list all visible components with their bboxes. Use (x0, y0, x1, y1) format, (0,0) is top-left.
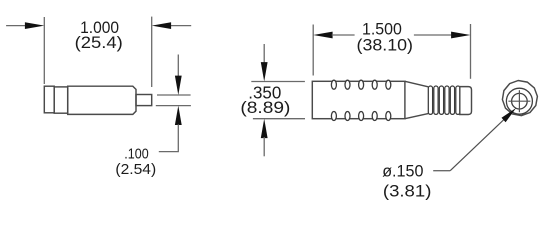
dimension .350 bottom dim line (253, 118, 305, 120)
svg-text:.100: .100 (124, 147, 148, 163)
dimension 1.500 line segment left (332, 34, 355, 36)
dimension 1.500 line segment right (414, 34, 452, 36)
svg-text:(2.54): (2.54) (115, 162, 156, 178)
svg-text:(38.10): (38.10) (357, 35, 414, 54)
diameter leader arrowhead (502, 108, 517, 122)
spring rib 1 (428, 86, 432, 114)
plug tip (136, 95, 152, 106)
dimension 1.000 dim line right with arrow (171, 25, 192, 27)
dimension .350 bottom stub (263, 137, 265, 156)
dimension .100 leader horizontal (159, 151, 179, 153)
dimension 1.000 extension line right (151, 17, 153, 87)
jack grip slot bottom 4 (372, 112, 377, 121)
diameter leader horizontal (433, 170, 450, 172)
jack body (312, 81, 405, 118)
jack grip slot top 5 (386, 80, 391, 89)
end view crosshair vertical (518, 90, 520, 112)
jack grip slot top 2 (345, 80, 350, 89)
end view middle circle (506, 88, 532, 114)
end view crosshair horizontal (508, 100, 530, 102)
dimension .100 top arrow (down) (175, 76, 182, 95)
svg-text:(8.89): (8.89) (240, 98, 290, 117)
spring rib 6 (456, 86, 460, 114)
plug collar ring (54, 87, 67, 113)
dimension 1.000 dim line left with arrow (6, 25, 26, 27)
jack grip slot top 3 (359, 80, 364, 89)
spring rib 2 (434, 86, 438, 114)
dimension .100 bottom stub (177, 124, 179, 151)
jack grip slot bottom 2 (345, 112, 350, 121)
end view inner circle (512, 93, 528, 109)
jack grip slot bottom 1 (331, 112, 336, 121)
dimension 1.500 arrow left (points left) (313, 32, 332, 39)
spring rib 5 (450, 86, 454, 114)
spring rib 3 (439, 86, 443, 114)
dimension 1.500 extension line right (470, 24, 472, 79)
jack taper bottom (405, 114, 428, 119)
dimension 1.500 extension line left (312, 25, 314, 76)
dimension .100 bottom extension line (156, 105, 191, 107)
jack taper top (405, 81, 428, 87)
dimension 1.000 extension line left (43, 17, 45, 84)
spring rib 4 (445, 86, 449, 114)
jack grip slot bottom 5 (386, 112, 391, 121)
jack end cap (460, 87, 472, 115)
jack grip slot top 4 (372, 80, 377, 89)
plug rear cap (44, 86, 54, 113)
plug barrel body (68, 86, 136, 114)
dimension .350 bottom arrow (up) (261, 119, 268, 138)
svg-text:(3.81): (3.81) (383, 181, 432, 200)
dimension .350 top arrow (down) (261, 62, 268, 81)
dimension .100 top extension line (157, 94, 191, 96)
jack grip slot top 1 (331, 80, 336, 89)
dimension 1.500 arrow right (points right) (451, 32, 470, 39)
end view outer knurled ring (12-gon) (502, 81, 537, 116)
jack grip slot bottom 3 (359, 112, 364, 121)
dimension .350 top dim line (251, 81, 305, 83)
dimension .350 top stub (263, 44, 265, 63)
diameter leader diagonal (450, 119, 504, 171)
dimension .100 bottom arrow (up) (175, 106, 182, 125)
dimension .100 top stub (177, 55, 179, 77)
svg-text:ø.150: ø.150 (382, 162, 423, 181)
svg-text:(25.4): (25.4) (75, 33, 123, 52)
